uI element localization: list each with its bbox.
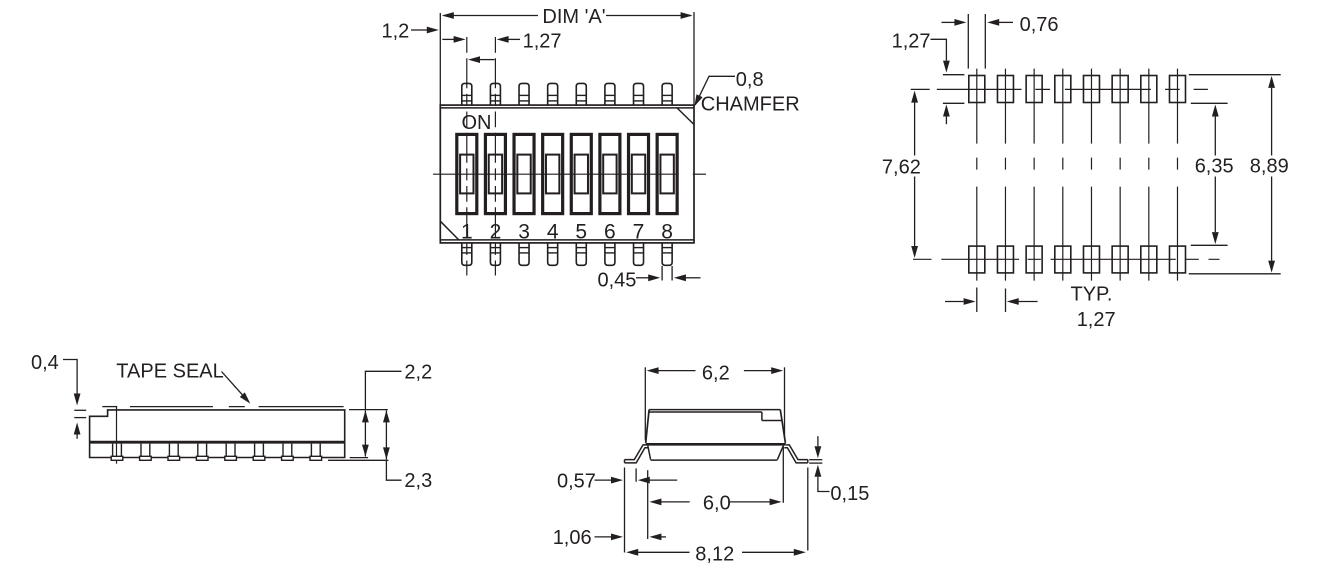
dimension 0,4 [31,352,86,439]
chamfer leader and note [694,69,799,115]
end view body top line [649,411,762,413]
side view pin 2 [140,444,152,461]
bottom pin 5 [576,243,586,265]
dimension 8,89 [1250,76,1289,273]
pin 2 centerline (plan view) [494,37,496,276]
dimension 6,35 extension ticks [1191,103,1228,245]
switch 7 actuator [629,134,649,213]
svg-text:4: 4 [547,220,559,243]
dimension 2,3 [383,410,432,492]
side view pin 3 [168,444,180,461]
foot inner extension tick [635,468,637,481]
svg-text:6,35: 6,35 [1195,156,1234,178]
bottom pin 3 [519,243,529,265]
ON label [462,112,492,134]
tape seal end vertical line [116,407,118,464]
dimension 1,27 pad height label [892,31,950,73]
bottom pad 2 [997,246,1013,273]
svg-text:7: 7 [633,220,645,243]
svg-text:6: 6 [604,220,616,243]
TAPE SEAL label and leader [116,360,250,403]
top pin 8 [662,83,672,105]
pad column 1 centerline [976,69,978,281]
svg-text:1,27: 1,27 [892,31,931,53]
dimension 0,76 [942,14,1059,36]
top pad 1 [969,76,985,103]
svg-text:1,06: 1,06 [553,527,592,549]
dimension 0,45 [598,266,701,292]
view 1 plan-view horizontal centerline [433,173,706,175]
svg-text:ON: ON [462,112,492,134]
dimension 0,57 [557,470,677,492]
switch 5 actuator [571,134,591,213]
pad column 2 centerline [1004,69,1006,281]
dimension 2,2 extension line top [349,409,388,411]
pad bottom edge extension tick [943,102,965,104]
corner diagonal bottom-left [440,221,459,240]
svg-text:2: 2 [490,220,502,243]
svg-text:TYP.: TYP. [1071,284,1113,306]
seating plane extension line [328,459,388,461]
end view shoulder thick line [646,443,786,446]
chamfer corner line top-right [677,108,694,125]
top pin 6 [605,83,615,105]
svg-text:5: 5 [575,220,587,243]
dimension 8,89 extension lines [1189,75,1281,274]
svg-text:DIM 'A': DIM 'A' [542,6,605,28]
switch 4 actuator [543,134,563,213]
dimension 1,2 arrow at pin 1 line [442,36,465,43]
pad column 5 centerline [1090,69,1092,281]
dimension 6,2 extension lines [645,367,784,440]
side view pin 1 [111,444,123,461]
side view body outline [90,410,345,458]
top pin 7 [634,83,644,105]
body top inner line [440,107,694,109]
body bottom inner line [440,239,694,241]
dimension 0,76 extension lines [968,14,985,69]
end view tape seal top line [649,409,780,411]
pitch dimension ticks bottom [977,288,1006,313]
dimension 7,62 [882,91,921,258]
dimension 1,27 lower arrow [943,105,950,125]
top pin 1 [462,83,472,105]
pad column 8 centerline [1176,69,1178,281]
svg-text:0,15: 0,15 [830,483,869,505]
bottom pin 1 [462,243,472,265]
svg-text:8,12: 8,12 [695,544,734,566]
bottom pad 4 [1055,246,1071,273]
end view body right side [780,410,785,443]
top pad 4 [1055,76,1071,103]
switch position number 3 [518,220,530,243]
dimension 0,15 [815,436,870,505]
lead tip extension line right [807,468,809,551]
dimension 2,2 [362,361,432,456]
pad column 4 centerline [1062,69,1064,281]
switch 6 actuator [600,134,620,213]
pad column 3 centerline [1033,69,1035,281]
top pad 3 [1026,76,1042,103]
switch position number 4 [547,220,559,243]
dimension 1,27 pitch [497,31,562,53]
svg-text:1,27: 1,27 [1077,309,1116,331]
dimension 2,2 extension tick bottom [350,457,368,459]
side view pin 7 [282,444,294,461]
switch 3 actuator [514,134,534,213]
bottom pad 1 [969,246,985,273]
svg-text:CHAMFER: CHAMFER [701,94,800,116]
side view pin 6 [253,444,265,461]
svg-text:0,45: 0,45 [598,270,637,292]
top pad 7 [1141,76,1157,103]
top pin 2 [490,83,500,105]
svg-text:0,8: 0,8 [736,69,764,91]
tape seal end step [762,412,781,421]
dimension 6,0 extension lines [648,447,784,540]
dimension 1,06 [553,527,666,549]
bottom pad 3 [1026,246,1042,273]
svg-text:0,57: 0,57 [557,470,596,492]
svg-text:1: 1 [461,220,473,243]
bottom pin 8 [662,243,672,265]
lead tip extension line left [624,468,626,553]
bottom pin 2 [490,243,500,265]
dimension 1,2 [382,21,439,43]
dimension 6,35 [1195,105,1234,245]
svg-text:8: 8 [661,220,673,243]
left gull-wing lead [625,445,649,463]
bottom pad 6 [1112,246,1128,273]
switch 2 actuator [485,134,505,213]
side view body parting thick line [90,441,345,444]
bottom pin 7 [634,243,644,265]
top pin 5 [576,83,586,105]
svg-text:6,2: 6,2 [702,363,730,385]
side view pin 8 [310,444,322,461]
top pad 2 [997,76,1013,103]
bottom pad 8 [1169,246,1185,273]
switch position number 2 [490,220,502,243]
bottom pin 4 [548,243,558,265]
svg-text:3: 3 [518,220,530,243]
bottom pad 5 [1083,246,1099,273]
svg-text:2,3: 2,3 [404,470,432,492]
switch 8 actuator [657,134,677,213]
switch position number 8 [661,220,673,243]
top pin 4 [548,83,558,105]
dimension 1,27 second arrow [468,56,495,63]
svg-text:8,89: 8,89 [1250,156,1289,178]
switch position number 7 [633,220,645,243]
dimension DIM 'A' [442,6,693,28]
pad column 6 centerline [1119,69,1121,281]
svg-text:6,0: 6,0 [703,492,731,514]
end view body left side [646,410,649,443]
dimension DIM 'A' extension line left [439,13,441,105]
top pad 6 [1112,76,1128,103]
dimension 0,15 ticks [809,460,822,463]
top pin 3 [519,83,529,105]
switch position number 1 [461,220,473,243]
svg-text:0,76: 0,76 [1020,14,1059,36]
top pad 5 [1083,76,1099,103]
tape seal hidden line [102,406,343,408]
land pattern horizontal centerline top row [911,88,1208,90]
svg-text:1,27: 1,27 [523,31,562,53]
top pad 8 [1169,76,1185,103]
right gull-wing lead [784,445,808,463]
pad top edge extension tick [943,74,965,76]
bottom pad 7 [1141,246,1157,273]
svg-text:2,2: 2,2 [404,361,432,383]
side view pin 4 [196,444,208,461]
switch 1 actuator [457,134,477,213]
dimension TYP. 1,27 [945,284,1116,331]
switch position number 6 [604,220,616,243]
dimension 8,12 [626,544,806,566]
svg-text:TAPE SEAL: TAPE SEAL [116,360,223,382]
side view pin 5 [225,444,237,461]
svg-text:0,4: 0,4 [31,352,59,374]
dimension 6,2 [647,363,784,385]
bottom pin 6 [605,243,615,265]
pin 1 centerline (plan view) [466,37,468,276]
land pattern horizontal centerline bottom row [913,258,1220,260]
svg-text:7,62: 7,62 [882,156,921,178]
pad column 7 centerline [1148,69,1150,281]
dimension DIM 'A' extension line right [693,12,695,105]
dimension 6,0 [649,492,781,514]
svg-text:1,2: 1,2 [382,21,410,43]
end view pedestal [648,446,784,461]
switch position number 5 [575,220,587,243]
switch body outline (plan view) [440,105,694,243]
